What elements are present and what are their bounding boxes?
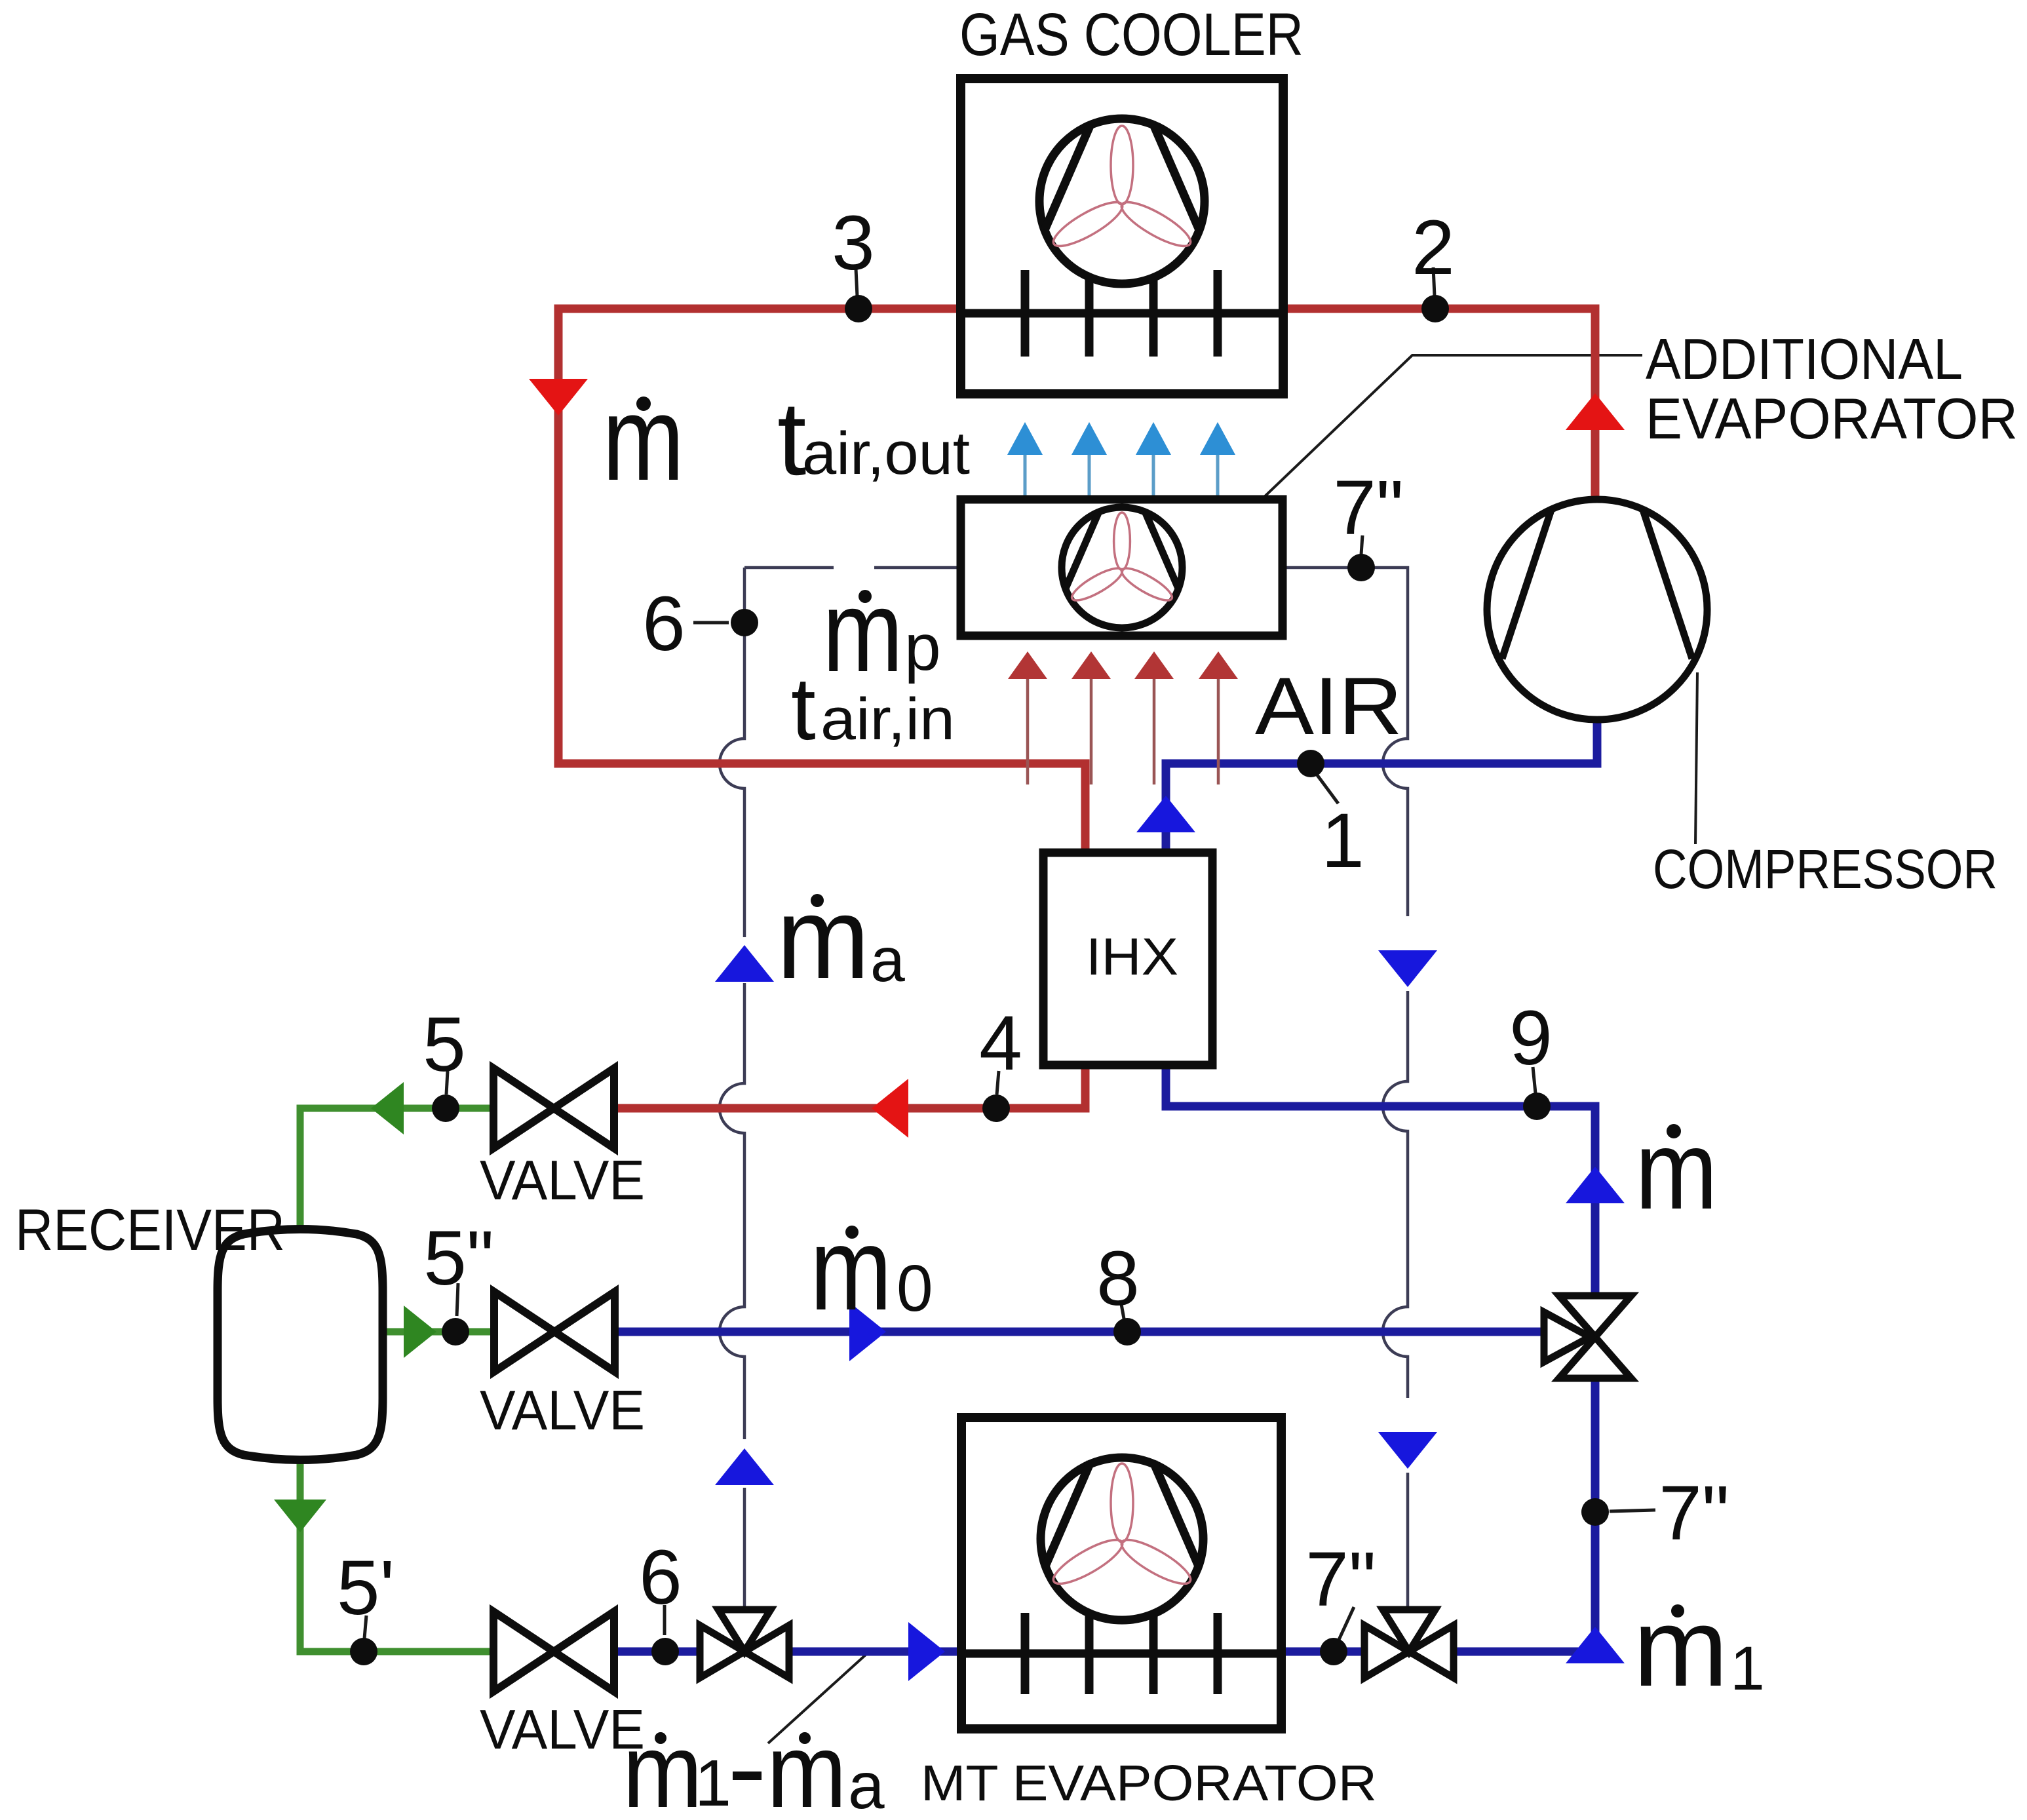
svg-text:GAS COOLER: GAS COOLER (959, 1, 1303, 68)
svg-text:VALVE: VALVE (480, 1699, 645, 1761)
svg-text:MT EVAPORATOR: MT EVAPORATOR (921, 1755, 1377, 1811)
svg-text:8: 8 (1096, 1235, 1140, 1322)
svg-text:m: m (810, 1203, 892, 1335)
svg-text:1: 1 (1730, 1634, 1765, 1703)
svg-text:7": 7" (1305, 1536, 1376, 1623)
svg-text:VALVE: VALVE (480, 1380, 645, 1442)
svg-text:m: m (767, 1712, 847, 1820)
svg-text:IHX: IHX (1086, 927, 1178, 986)
svg-text:m: m (623, 1712, 703, 1820)
svg-text:EVAPORATOR: EVAPORATOR (1646, 386, 2018, 451)
svg-text:1: 1 (1321, 798, 1364, 884)
svg-text:2: 2 (1412, 204, 1455, 291)
svg-text:6: 6 (642, 581, 685, 667)
svg-text:3: 3 (832, 200, 875, 286)
svg-text:air,in: air,in (820, 687, 955, 752)
svg-text:5': 5' (337, 1545, 395, 1631)
svg-text:t: t (791, 659, 816, 758)
svg-text:7": 7" (1333, 465, 1404, 551)
svg-text:6: 6 (639, 1534, 682, 1621)
svg-text:0: 0 (897, 1252, 933, 1325)
svg-text:m: m (822, 566, 903, 696)
svg-text:9: 9 (1509, 995, 1553, 1081)
svg-text:RECEIVER: RECEIVER (15, 1197, 285, 1262)
svg-text:AIR: AIR (1255, 661, 1402, 752)
svg-text:m: m (602, 371, 684, 505)
svg-text:air,out: air,out (802, 420, 970, 487)
svg-text:a: a (848, 1749, 885, 1820)
svg-text:a: a (870, 925, 905, 995)
svg-text:VALVE: VALVE (480, 1150, 645, 1212)
svg-text:4: 4 (979, 1000, 1022, 1087)
svg-text:5": 5" (423, 1215, 494, 1302)
svg-text:1: 1 (695, 1747, 731, 1820)
svg-text:ADDITIONAL: ADDITIONAL (1646, 326, 1963, 391)
svg-text:COMPRESSOR: COMPRESSOR (1653, 838, 1998, 900)
svg-text:7": 7" (1659, 1470, 1729, 1557)
svg-text:5: 5 (423, 1001, 466, 1088)
svg-text:p: p (904, 611, 941, 684)
svg-text:m: m (1633, 1585, 1728, 1710)
svg-text:m: m (777, 873, 870, 1003)
